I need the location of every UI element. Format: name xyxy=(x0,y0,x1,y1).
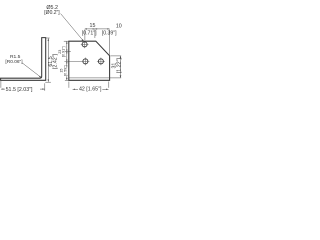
right view outline xyxy=(69,41,110,80)
hole H3 xyxy=(98,59,103,64)
leader for R1.5 xyxy=(22,63,41,78)
svg-text:[Ø0.2"]: [Ø0.2"] xyxy=(44,10,60,16)
bend line tick right (dim 31 bottom ext) xyxy=(110,77,122,79)
crosshair H2 + ext to left dims xyxy=(64,58,89,66)
dim 61.5: line xyxy=(45,38,51,82)
svg-text:[0.59"]: [0.59"] xyxy=(63,65,67,76)
dim 51.5: ext lines xyxy=(1,81,45,91)
svg-text:[2.42"]: [2.42"] xyxy=(53,53,59,69)
right view bottom edge tick to left xyxy=(65,79,69,81)
svg-text:42 [1.65"]: 42 [1.65"] xyxy=(79,87,102,93)
dim 42: ext lines xyxy=(69,82,109,90)
left view L-bracket outline xyxy=(1,38,46,81)
crosshair H3 xyxy=(97,58,105,66)
svg-text:51.5 [2.03"]: 51.5 [2.03"] xyxy=(6,87,33,93)
tick2 xyxy=(65,50,71,52)
svg-text:[0.71"]: [0.71"] xyxy=(82,31,97,37)
svg-text:15: 15 xyxy=(90,23,96,29)
svg-text:10: 10 xyxy=(116,23,122,29)
dim 31: rotated text xyxy=(112,58,123,74)
dim 61.5: bottom tick xyxy=(45,81,51,83)
dim 42: arrow stubs xyxy=(73,88,78,90)
right view top edge tick to left xyxy=(64,41,121,80)
svg-text:R1.5: R1.5 xyxy=(10,54,21,60)
rotated text 15 [0.59"] xyxy=(60,65,68,76)
dim 10: line and ext down to chamfer end xyxy=(95,29,110,56)
svg-text:[R0.06"]: [R0.06"] xyxy=(5,59,22,65)
dim 61.5: rotated text xyxy=(48,53,59,69)
dim 51.5: arrow stubs xyxy=(1,88,5,90)
crosshair H1 xyxy=(64,42,105,66)
hole H2 xyxy=(83,59,88,64)
bend line xyxy=(69,77,110,79)
left dim stack: line with arrows xyxy=(65,41,71,80)
hole H1 xyxy=(82,42,103,64)
dim 31: ticks xyxy=(111,56,122,78)
rotated text 23 [0.91"] xyxy=(58,46,66,57)
svg-text:[1.22"]: [1.22"] xyxy=(116,58,122,74)
svg-text:[0.91"]: [0.91"] xyxy=(62,46,66,57)
svg-text:[0.39"]: [0.39"] xyxy=(102,31,117,37)
dim 15: line and exts xyxy=(85,29,95,40)
left view top edge tick extension (dim 61.5) xyxy=(46,37,50,39)
leader for dia 5.2 callout xyxy=(61,14,84,42)
